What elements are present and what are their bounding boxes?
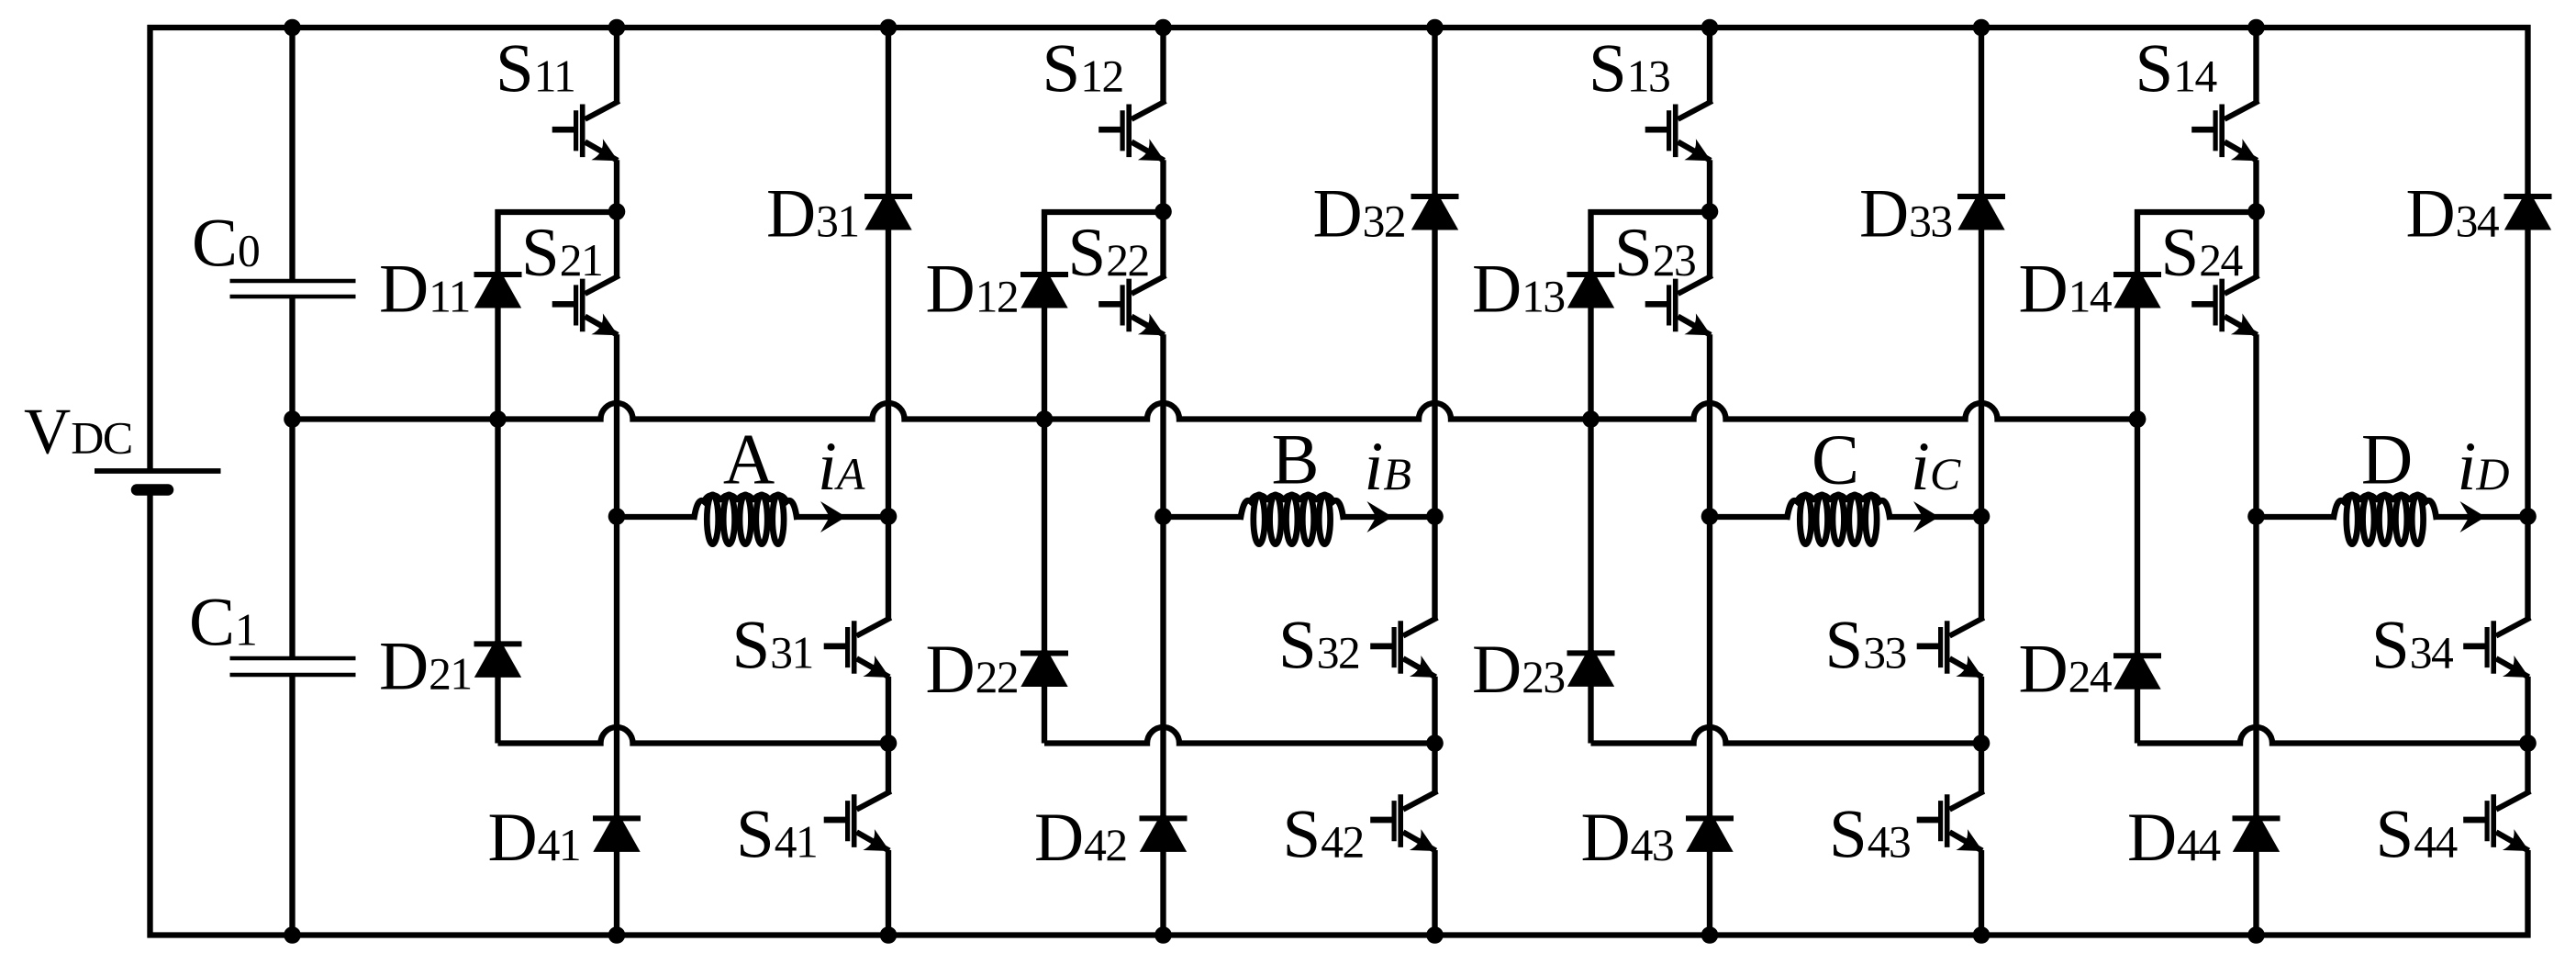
transistor S21 [585,275,619,294]
node phase D right [2519,508,2537,525]
capacitor C1 [230,656,356,661]
wire clamp diode leg vertical [495,209,500,744]
svg-text:S42: S42 [1283,797,1364,873]
node S14/S24 junction [2247,203,2265,220]
diode D14 [2113,266,2160,308]
svg-text:D44: D44 [2127,800,2220,876]
node lower wire junction [1973,734,1991,752]
svg-text:D: D [2361,420,2413,499]
svg-text:S33: S33 [1825,608,1906,684]
node bottom bus right leg [1973,926,1991,944]
node D12 middle bus junction [1036,410,1054,428]
svg-text:iC: iC [1911,429,1961,505]
wire S41 emitter to bottom bus [886,850,891,936]
wire S22 emitter down to phase node [1160,334,1165,517]
node S11/S21 junction [608,203,626,220]
svg-text:S24: S24 [2161,215,2243,291]
wire lower horizontal with hop over switch leg [1044,727,1435,743]
inductor phase B [1254,495,1265,544]
svg-text:D11: D11 [379,252,470,328]
wire S32 emitter through lower node to S42 [1432,677,1437,792]
diode D24 [2113,647,2160,689]
wire S12 collector from top bus [1160,28,1165,102]
svg-text:S11: S11 [496,31,574,107]
svg-text:S31: S31 [732,608,813,684]
wire clamp diode leg vertical [2135,209,2140,744]
node D13 middle bus junction [1582,410,1600,428]
node bottom bus switch leg [1154,926,1172,944]
wire S34 emitter through lower node to S44 [2525,677,2530,792]
wire S12 emitter to node [1160,160,1165,212]
node D14 middle bus junction [2129,410,2147,428]
svg-text:S23: S23 [1614,215,1695,291]
node bottom bus switch leg [1701,926,1719,944]
wire S23 emitter down to phase node [1707,334,1712,517]
svg-text:S14: S14 [2136,31,2217,107]
wire S44 emitter to bottom bus [2525,850,2530,938]
transistor S13 [1678,101,1712,119]
transistor S14 [2225,101,2258,119]
diode D33 [1957,188,2004,230]
wire phase B output left segment [1164,514,1243,520]
svg-text:C: C [1812,420,1859,499]
wire S14 collector from top bus [2253,28,2258,102]
svg-text:D22: D22 [926,632,1019,708]
wire switch leg phase node down to bottom bus [1707,517,1712,936]
diode D41 [593,810,640,852]
diode D13 [1567,266,1614,308]
svg-text:D24: D24 [2019,632,2112,708]
wire capacitor leg middle segment [289,298,295,657]
wire phase A output right segment with current arrow [796,514,888,520]
svg-text:S41: S41 [736,797,817,873]
capacitor C0 [230,279,356,284]
wire S11 emitter to node [614,160,619,212]
svg-text:D42: D42 [1034,800,1127,876]
node phase C right [1973,508,1991,525]
transistor S31 [856,618,890,636]
diode D23 [1567,645,1614,687]
wire S13 emitter to node [1707,160,1712,212]
node middle bus end at D14 leg [2129,410,2147,428]
wire S13 collector from top bus [1707,28,1712,102]
node S12/S22 junction [1154,203,1172,220]
wire clamp diode leg vertical [1588,209,1593,744]
inductor phase D [2347,495,2358,544]
wire S33 emitter through lower node to S43 [1979,677,1984,792]
wire S23 collector [1707,212,1712,276]
wire clamp diode leg vertical [1042,209,1047,744]
svg-text:S13: S13 [1589,31,1669,107]
svg-text:S21: S21 [521,215,602,291]
diode D12 [1020,266,1067,308]
node top bus right leg [1426,19,1444,37]
node D11 middle bus junction [489,410,507,428]
svg-text:D23: D23 [1472,632,1565,708]
wire left rail upper segment [147,25,152,469]
node S13/S23 junction [1701,203,1719,220]
svg-text:D14: D14 [2019,252,2112,328]
svg-text:D41: D41 [488,800,581,876]
wire bottom bus (negative DC rail) [148,932,2531,937]
diode D31 [864,188,911,230]
node phase D left [2247,508,2265,525]
node top bus switch leg [1701,19,1719,37]
transistor S24 [2225,275,2258,294]
wire S21 emitter down to phase node [614,334,619,517]
transistor S42 [1403,791,1437,810]
node lower wire junction [880,734,898,752]
wire lower horizontal with hop over switch leg [1591,727,1982,743]
diode D43 [1686,810,1733,852]
wire S24 emitter down to phase node [2253,334,2258,517]
svg-text:D32: D32 [1313,176,1406,252]
svg-text:D34: D34 [2406,176,2499,252]
transistor S44 [2496,791,2530,810]
wire phase D output left segment [2257,514,2336,520]
wire node to clamp diode leg [1042,209,1164,215]
wire phase D output right segment with current arrow [2436,514,2528,520]
wire lower horizontal with hop over switch leg [2137,727,2528,743]
svg-text:B: B [1271,420,1319,499]
transistor S41 [856,791,890,810]
node lower wire junction [1426,734,1444,752]
transistor S22 [1132,275,1165,294]
transistor S12 [1132,101,1165,119]
wire S42 emitter to bottom bus [1432,850,1437,936]
node bottom bus switch leg [608,926,626,944]
wire phase B output right segment with current arrow [1343,514,1435,520]
transistor S34 [2496,618,2530,636]
svg-text:S32: S32 [1278,608,1359,684]
node top bus right leg [1973,19,1991,37]
diode D32 [1411,188,1458,230]
svg-text:D33: D33 [1859,176,1952,252]
svg-text:C1: C1 [189,585,256,661]
wire right leg top bus to S33 [1979,28,1984,619]
wire S22 collector [1160,212,1165,276]
svg-text:S12: S12 [1043,31,1123,107]
transistor S32 [1403,618,1437,636]
wire right leg top bus to S32 [1432,28,1437,619]
diode D44 [2233,810,2280,852]
node bottom bus right leg [880,926,898,944]
diode D22 [1020,645,1067,688]
wire lower horizontal with hop over switch leg [498,727,889,743]
svg-text:iB: iB [1365,429,1411,505]
svg-text:iA: iA [818,429,865,505]
svg-text:iD: iD [2458,429,2510,505]
diode D21 [474,635,521,678]
svg-text:C0: C0 [192,206,259,282]
wire node to clamp diode leg [1589,209,1711,215]
svg-text:S34: S34 [2371,608,2453,684]
wire right leg top bus to S34 [2525,25,2530,619]
inductor phase A [707,495,718,544]
node bottom bus right leg [1426,926,1444,944]
wire phase C output right segment with current arrow [1889,514,1981,520]
wire top bus (positive DC rail) [148,25,2531,30]
wire S31 emitter through lower node to S41 [886,677,891,792]
wire node to clamp diode leg [2135,209,2257,215]
node lower wire junction [2519,734,2537,752]
node phase A right [880,508,898,525]
svg-text:D21: D21 [379,629,472,705]
node top bus switch leg [2247,19,2265,37]
diode D42 [1140,810,1187,852]
node bottom bus capacitor leg [284,926,301,944]
wire capacitor leg bottom segment [289,677,295,936]
node top bus capacitor leg [284,19,301,37]
node phase B left [1154,508,1172,525]
node bottom bus switch leg [2247,926,2265,944]
svg-text:D12: D12 [926,252,1019,328]
wire right leg top bus to S31 [886,28,891,619]
wire phase C output left segment [1710,514,1790,520]
node top bus switch leg [1154,19,1172,37]
diode D11 [474,266,521,308]
wire capacitor leg top segment [289,28,295,280]
wire node to clamp diode leg [496,209,618,215]
battery VDC positive plate [95,468,221,474]
wire S43 emitter to bottom bus [1979,850,1984,936]
transistor S43 [1949,791,1983,810]
battery VDC negative plate [137,484,168,496]
node phase C left [1701,508,1719,525]
svg-text:D13: D13 [1472,252,1565,328]
wire middle bus with wire hops [293,403,2138,420]
svg-text:D31: D31 [766,176,859,252]
inductor phase C [1800,495,1811,544]
node middle bus capacitor leg [284,410,301,428]
transistor S33 [1949,618,1983,636]
svg-text:VDC: VDC [24,397,132,468]
diode D34 [2504,188,2551,230]
node phase A left [608,508,626,525]
svg-text:S43: S43 [1829,797,1910,873]
svg-text:S44: S44 [2376,797,2458,873]
node top bus right leg [880,19,898,37]
wire switch leg phase node down to bottom bus [614,517,619,936]
wire S11 collector from top bus [614,28,619,102]
svg-text:S22: S22 [1068,215,1149,291]
node phase B right [1426,508,1444,525]
wire left rail lower segment [147,493,152,938]
wire S14 emitter to node [2253,160,2258,212]
svg-text:A: A [723,420,775,499]
wire S24 collector [2253,212,2258,276]
wire switch leg phase node down to bottom bus [1160,517,1165,936]
transistor S23 [1678,275,1712,294]
wire phase A output left segment [617,514,697,520]
svg-text:D43: D43 [1581,800,1674,876]
transistor S11 [585,101,619,119]
wire switch leg phase node down to bottom bus [2253,517,2258,936]
node top bus switch leg [608,19,626,37]
wire S21 collector [614,212,619,276]
